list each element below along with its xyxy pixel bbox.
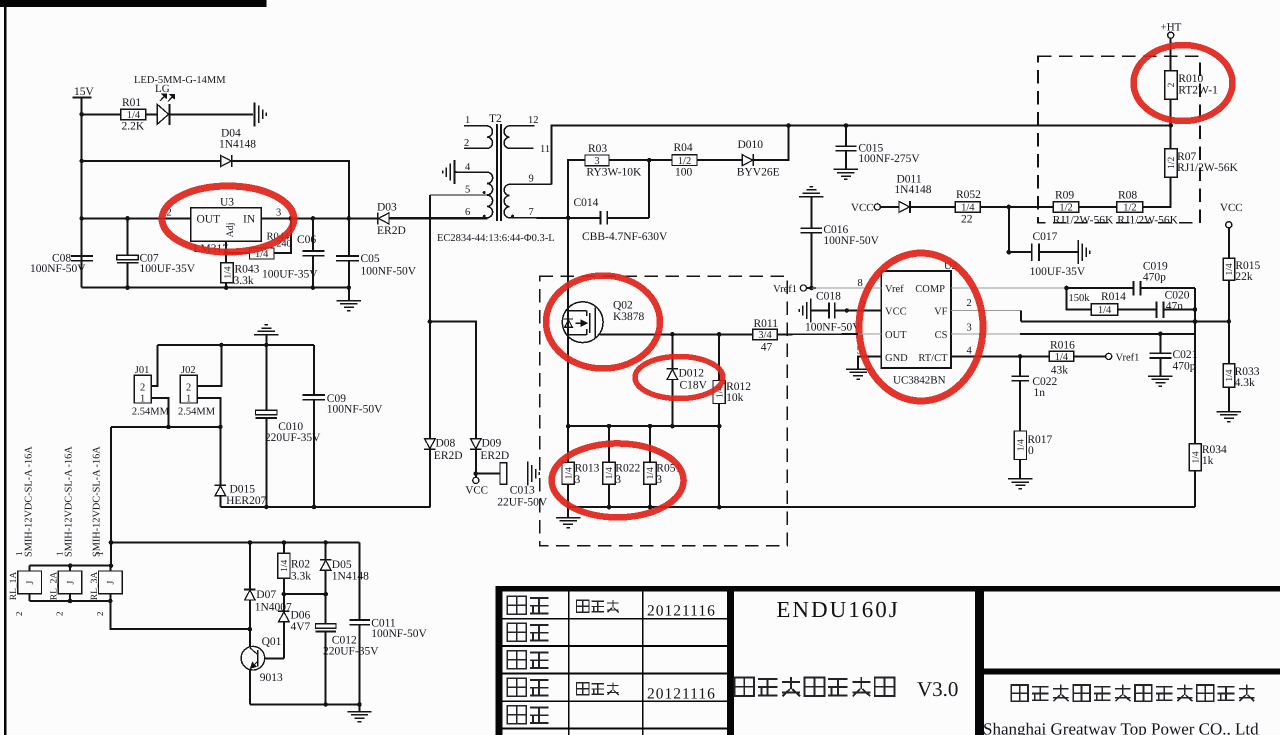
svg-text:RL_1A: RL_1A [9, 572, 19, 601]
svg-text:12: 12 [528, 115, 539, 126]
node +HT terminal [1168, 32, 1174, 38]
wire R012 to bottom return [718, 404, 720, 508]
wire pin5 to ground [858, 357, 882, 369]
wire down to C017 [1008, 207, 1010, 252]
svg-text:T2: T2 [489, 113, 502, 125]
svg-text:ER2D: ER2D [377, 225, 406, 237]
wire R04 to D010 [697, 159, 743, 161]
svg-text:1/2: 1/2 [1059, 203, 1072, 214]
wire D09 to VCC node [475, 450, 477, 477]
diode D010 [742, 154, 753, 166]
dashed box power stage [540, 276, 788, 545]
wire R022 bottom [608, 485, 610, 508]
mosfet Q02 K3878 [562, 302, 603, 343]
connector J02 [180, 375, 197, 404]
svg-text:SMIH-12VDC-SL-A -16A: SMIH-12VDC-SL-A -16A [92, 446, 103, 557]
wire 15V to R01 [82, 114, 122, 116]
svg-text:RJ1/2W-56K: RJ1/2W-56K [1053, 215, 1114, 227]
node VCC (D011) [874, 204, 880, 210]
capacitor C016 [800, 228, 822, 233]
ground (R017) [1008, 479, 1032, 489]
resistor R03 [585, 155, 609, 167]
wire C021 bottom [1160, 359, 1162, 376]
svg-text:R052: R052 [956, 189, 981, 201]
svg-text:4: 4 [465, 162, 471, 173]
capacitor C015 [835, 146, 856, 151]
svg-text:C05: C05 [361, 253, 380, 265]
wire riser C019 to R034 [1194, 288, 1196, 444]
ground (LED row) [255, 102, 267, 126]
svg-text:C013: C013 [510, 485, 535, 497]
svg-text:3.3k: 3.3k [234, 275, 254, 287]
wire R015 to VF node [1228, 281, 1230, 322]
svg-text:Shanghai Greatway Top Power CO: Shanghai Greatway Top Power CO., Ltd [983, 720, 1259, 735]
junction J01 pin1 [166, 425, 171, 430]
junction pin7 node [566, 216, 571, 221]
svg-text:1/4: 1/4 [1098, 305, 1112, 316]
svg-text:100NF-50V: 100NF-50V [361, 266, 417, 278]
svg-text:1/4: 1/4 [646, 467, 656, 479]
svg-text:1/4: 1/4 [1225, 369, 1235, 381]
svg-text:R03: R03 [588, 143, 607, 155]
wire C07 top [127, 219, 129, 256]
wire J section top rail [158, 344, 315, 346]
wire to D015 [220, 427, 222, 485]
svg-text:1: 1 [465, 115, 470, 126]
wire HT to R010 [1170, 39, 1172, 72]
company name Chinese [1011, 685, 1028, 701]
wire C05 bottom [348, 261, 350, 288]
wire secondary bottom rail [221, 506, 431, 508]
wire R016 to Vref1 [1074, 356, 1106, 358]
wire C09 bottom [313, 400, 315, 507]
svg-text:HER207: HER207 [226, 495, 267, 507]
junction VCC-C013 [474, 471, 479, 476]
svg-text:1N4148: 1N4148 [894, 184, 931, 196]
wire to D06 [283, 594, 285, 611]
wire to D07 [249, 543, 251, 590]
resistor R02 [278, 553, 290, 578]
node Vref1 (pin8) [800, 285, 806, 291]
capacitor C020 [1156, 301, 1163, 318]
wire VF stub [951, 310, 1021, 312]
svg-text:UC3842BN: UC3842BN [893, 375, 946, 387]
wire C018 to pin7 [835, 310, 882, 312]
svg-text:R022: R022 [615, 463, 640, 475]
wire LED to ground [170, 114, 254, 116]
wire C016 bottom [811, 233, 813, 288]
svg-text:R014: R014 [1101, 291, 1126, 303]
junction R02-D06 [282, 592, 287, 597]
diode D015 [215, 485, 227, 496]
wire C017 to ground [1040, 251, 1079, 253]
resistor R016 [1049, 351, 1073, 363]
svg-text:D015: D015 [230, 484, 256, 496]
wire C011 bottom [359, 625, 361, 705]
resistor R044 [249, 248, 274, 260]
wire pin7 node to R03 [568, 160, 585, 218]
resistor R014 [1091, 304, 1118, 316]
ground (IC GND) [846, 369, 870, 379]
svg-text:R011: R011 [754, 318, 779, 330]
svg-text:RL_3A: RL_3A [90, 572, 100, 601]
svg-text:RT/CT: RT/CT [918, 353, 948, 364]
svg-text:Adj: Adj [225, 223, 236, 238]
svg-text:D09: D09 [482, 438, 502, 450]
name cell row4 刘纪周 [576, 683, 589, 695]
title cell 校对 [507, 651, 526, 669]
wire R033 to ground [1228, 388, 1230, 412]
svg-text:1: 1 [140, 394, 145, 405]
junction D010 riser [786, 123, 791, 128]
wire D08 bottom [429, 450, 431, 508]
wire R051 top [649, 426, 651, 463]
wire relay coil bottom rail [30, 600, 111, 602]
junction riser-VF [1193, 319, 1198, 324]
wire aux top rail [111, 542, 360, 544]
junction R012 top [717, 332, 722, 337]
svg-text:3: 3 [276, 208, 281, 219]
svg-text:100NF-50V: 100NF-50V [805, 322, 861, 334]
svg-text:Vref: Vref [885, 284, 904, 295]
svg-text:100: 100 [675, 167, 693, 179]
wire C06 top [312, 219, 314, 251]
ground (R033) [1217, 412, 1241, 422]
svg-text:RY3W-10K: RY3W-10K [586, 167, 642, 179]
title cell 绘制 [507, 623, 526, 641]
wire R043 to rail [225, 283, 227, 288]
svg-text:6: 6 [465, 207, 470, 218]
svg-text:Q02: Q02 [613, 300, 633, 312]
resistor R034 [1189, 444, 1201, 471]
resistor R013 [562, 462, 574, 484]
junction C022 [1018, 354, 1023, 359]
diode D09 [470, 439, 482, 450]
wire to U3 OUT [82, 218, 192, 220]
LED LG [157, 94, 174, 125]
junction D015 top [218, 425, 223, 430]
svg-text:1k: 1k [1202, 455, 1214, 467]
wire U3 Adj down [225, 241, 227, 263]
capacitor C07 [117, 255, 139, 263]
capacitor C018 [829, 303, 835, 319]
svg-text:9013: 9013 [260, 672, 283, 684]
wire relay coil top rail [30, 565, 112, 567]
svg-text:D012: D012 [679, 368, 705, 380]
svg-text:R02: R02 [291, 559, 310, 571]
wire C012 top [325, 594, 327, 624]
junction C021 [1158, 332, 1163, 337]
svg-text:4: 4 [967, 346, 973, 357]
transformer T2 winding 9-7 [504, 184, 552, 217]
svg-text:CBB-4.7NF-630V: CBB-4.7NF-630V [582, 231, 668, 243]
wire RL_2A top stub [69, 566, 71, 572]
svg-text:15V: 15V [74, 86, 95, 98]
svg-text:5: 5 [465, 185, 470, 196]
svg-text:1/4: 1/4 [961, 203, 975, 214]
svg-text:150k: 150k [1069, 293, 1091, 304]
svg-text:3: 3 [967, 323, 972, 334]
svg-text:1/2: 1/2 [678, 156, 691, 167]
wire relay riser [110, 427, 112, 566]
red ellipse UC3842 [859, 253, 983, 401]
svg-text:C18V: C18V [680, 380, 708, 392]
wire R011 to OUT [778, 333, 859, 336]
svg-text:J01: J01 [135, 365, 150, 376]
red ellipse sense resistors [552, 443, 684, 517]
diode D011 [899, 201, 910, 213]
svg-text:100UF-35V: 100UF-35V [1030, 266, 1086, 278]
resistor R052 [955, 202, 980, 214]
node VCC terminal (C013) [473, 477, 479, 483]
junction R044 riser [289, 216, 294, 221]
svg-text:22UF-50V: 22UF-50V [497, 497, 548, 509]
wire RL_1A bottom stub [29, 594, 31, 601]
svg-text:R09: R09 [1055, 190, 1074, 202]
junction D08-D09 branch [428, 319, 433, 324]
capacitor C09 [303, 395, 326, 400]
svg-text:4V7: 4V7 [291, 621, 311, 633]
wire to pin8 [812, 287, 882, 289]
ground inverted (C016) [799, 187, 823, 197]
svg-text:1/4: 1/4 [1017, 439, 1027, 451]
wire C012 bottom [325, 632, 327, 705]
svg-text:47n: 47n [1166, 301, 1184, 313]
svg-text:220UF-35V: 220UF-35V [265, 432, 321, 444]
wire C015 bottom [845, 151, 847, 169]
resistor R012 [713, 381, 725, 404]
wire to OUT pin [858, 333, 882, 335]
svg-text:2: 2 [464, 138, 469, 149]
svg-text:1/4: 1/4 [1225, 263, 1235, 275]
svg-text:2: 2 [967, 298, 972, 309]
svg-text:U3: U3 [220, 197, 234, 209]
phase dot pin5 [483, 191, 486, 194]
red ellipse R010 [1134, 45, 1233, 121]
svg-text:8: 8 [858, 278, 863, 289]
wire to ground (sense) [567, 507, 569, 517]
svg-text:IN: IN [243, 214, 256, 226]
junction R052-C017 [1007, 205, 1012, 210]
wire J02 pin2 riser [198, 345, 222, 386]
junction C06 top [311, 216, 316, 221]
wire COMP node to R014 [1067, 288, 1092, 310]
svg-text:D03: D03 [377, 202, 397, 214]
svg-text:100NF-50V: 100NF-50V [327, 404, 383, 416]
IC U2 UC3842BN [881, 271, 951, 368]
svg-text:C021: C021 [1173, 349, 1198, 361]
junction R03-R04 [647, 158, 652, 163]
svg-text:C018: C018 [816, 291, 841, 303]
svg-text:CS: CS [935, 330, 948, 341]
red ellipse Q02 [546, 276, 660, 369]
resistor R043 [221, 263, 233, 283]
wire Q02 gate row [600, 334, 753, 336]
transformer T2 winding 1-2 [464, 126, 493, 148]
svg-text:R043: R043 [235, 264, 260, 276]
wire CS stub [951, 333, 1020, 335]
svg-text:3/4: 3/4 [758, 330, 772, 341]
svg-text:D08: D08 [436, 438, 456, 450]
diode D07 [244, 590, 256, 601]
svg-text:RJ1/2W-56K: RJ1/2W-56K [1117, 215, 1178, 227]
junction 15V-D04 [79, 159, 84, 164]
svg-text:Vref1: Vref1 [1116, 352, 1140, 363]
ground (15V section) [337, 301, 361, 311]
wire D011 to R052 [911, 206, 956, 208]
wire COMP to node [951, 287, 1067, 289]
svg-text:100UF-35V: 100UF-35V [262, 269, 318, 281]
zener D012 [667, 369, 679, 380]
wire relay return to D07 [111, 601, 251, 629]
svg-text:D010: D010 [738, 139, 764, 151]
wire J01 pin2 riser [151, 345, 158, 386]
title cell 审核 [507, 678, 526, 696]
capacitor C011 [349, 620, 370, 625]
svg-text:220UF-35V: 220UF-35V [323, 646, 379, 658]
junction COMP node [1064, 286, 1069, 291]
svg-text:R08: R08 [1118, 190, 1137, 202]
wire R03 junction to R04 [609, 159, 672, 161]
capacitor C019 [1134, 281, 1141, 296]
svg-text:1/4: 1/4 [605, 467, 615, 479]
junction D012 top [670, 332, 675, 337]
junction C010 top [264, 343, 269, 348]
wire HT rail to R07 [1170, 126, 1172, 150]
svg-text:1/2: 1/2 [1167, 156, 1177, 168]
dashed box feedback resistors [1038, 56, 1200, 223]
svg-text:RT2W-1: RT2W-1 [1178, 85, 1218, 97]
wire R044 to IN node [274, 219, 291, 254]
svg-text:VF: VF [934, 306, 948, 317]
svg-text:OUT: OUT [197, 214, 221, 226]
svg-text:9: 9 [529, 174, 534, 185]
svg-text:ENDU160J: ENDU160J [776, 597, 899, 622]
ground (aux rail) [347, 712, 371, 722]
wire C05 top [348, 219, 350, 256]
svg-text:7: 7 [529, 207, 534, 218]
svg-text:3: 3 [656, 474, 662, 486]
relay RL_1A [18, 571, 42, 594]
wire R022 top [608, 426, 610, 463]
wire VCC to R015 [1228, 228, 1230, 259]
svg-text:D07: D07 [256, 589, 276, 601]
svg-text:11: 11 [540, 144, 550, 155]
junction relay branch [109, 540, 114, 545]
resistor R051 [644, 462, 656, 484]
wire RL_3A bottom stub [110, 594, 112, 601]
svg-text:SMIH-12VDC-SL-A -16A: SMIH-12VDC-SL-A -16A [64, 446, 75, 557]
red ellipse U3 [162, 186, 294, 252]
wire D012 to source row [672, 380, 674, 427]
svg-text:COMP: COMP [915, 284, 945, 295]
svg-text:J: J [106, 580, 117, 584]
wire R051 bottom [649, 485, 651, 508]
wire R01 to LED [146, 114, 157, 116]
svg-text:J: J [25, 580, 36, 584]
svg-text:Vref1: Vref1 [773, 284, 797, 295]
svg-text:1/2: 1/2 [1123, 203, 1136, 214]
wire 15V vertical rail [81, 98, 83, 288]
wire 15V to D04 [82, 160, 221, 162]
junction C07 top [125, 216, 130, 221]
svg-text:1: 1 [186, 394, 191, 405]
svg-text:VCC: VCC [1220, 202, 1243, 214]
transformer T2 winding 4-5-6 [389, 172, 493, 218]
svg-text:LG: LG [155, 83, 170, 95]
wire RL_1A top stub [29, 566, 31, 572]
capacitor C010 [256, 410, 277, 418]
svg-text:2: 2 [55, 612, 65, 617]
junction C018 [845, 308, 850, 313]
svg-text:K3878: K3878 [613, 311, 645, 323]
svg-text:D06: D06 [291, 610, 311, 622]
wire Q01 emitter [249, 670, 251, 705]
svg-text:10k: 10k [726, 392, 744, 404]
junction Adj node [224, 251, 229, 256]
title cell 标化 [507, 706, 526, 724]
svg-text:J02: J02 [181, 365, 196, 376]
wire VF line [1021, 321, 1229, 323]
wire C010 top [266, 345, 268, 411]
wire C09 top [313, 345, 315, 395]
capacitor C022 [1011, 376, 1029, 381]
wire to R012 [718, 335, 720, 381]
ground (C017) [1078, 240, 1090, 264]
capacitor C06 [302, 251, 324, 256]
wire drain line [567, 218, 569, 426]
relay RL_3A [99, 571, 123, 594]
svg-text:R04: R04 [674, 142, 693, 154]
wire C016 top [811, 197, 813, 229]
resistor R07 [1165, 149, 1177, 178]
resistor R033 [1223, 364, 1235, 388]
svg-text:Q01: Q01 [262, 636, 282, 648]
svg-text:SMIH-12VDC-SL-A -16A: SMIH-12VDC-SL-A -16A [24, 446, 35, 557]
resistor R01 [121, 109, 146, 121]
wire bottom current return [568, 506, 1195, 508]
junction 15V-R01 [79, 112, 84, 117]
svg-text:1/4: 1/4 [223, 266, 233, 278]
wire aux bottom rail [250, 704, 360, 706]
resistor R09 [1053, 202, 1079, 214]
svg-text:100NF-50V: 100NF-50V [30, 263, 86, 275]
wire C021 top [1160, 334, 1162, 353]
wire Vref1 to C016 node [807, 287, 817, 289]
junction D05-C012 [323, 592, 328, 597]
junction C015 top [844, 123, 849, 128]
ground (C015) [834, 169, 858, 179]
capacitor C017 [1032, 243, 1039, 261]
svg-text:C017: C017 [1033, 231, 1058, 243]
wire R08 to R09 [1079, 206, 1117, 208]
svg-text:1/4: 1/4 [1055, 352, 1069, 363]
svg-text:2: 2 [95, 612, 105, 617]
svg-text:ER2D: ER2D [480, 450, 509, 462]
resistor R022 [603, 462, 615, 484]
red ellipse D012 [635, 357, 723, 399]
wire D015 bottom [220, 496, 222, 507]
capacitor C014 [601, 211, 608, 225]
svg-text:2: 2 [140, 383, 145, 394]
capacitor C08 [71, 256, 93, 261]
name cell row1 刘纪周 [576, 600, 589, 612]
capacitor C021 [1149, 353, 1171, 358]
wire ground stub [266, 335, 268, 346]
svg-text:3: 3 [575, 474, 581, 486]
svg-text:3.3k: 3.3k [291, 571, 311, 583]
ground inverted (J section) [254, 325, 278, 335]
